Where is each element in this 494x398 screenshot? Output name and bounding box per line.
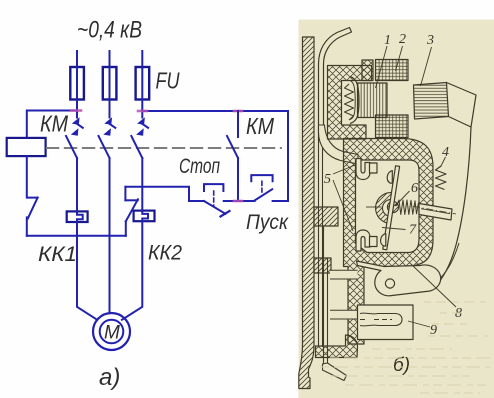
faint show-through text: [320, 302, 490, 393]
leader 6: [395, 191, 410, 206]
wire L2 fuse to contact: [109, 100, 111, 118]
leader 5: [333, 165, 355, 231]
wire L1 fuse to contact: [76, 100, 78, 118]
contact pad bottom: [381, 234, 386, 246]
armature carrier outline: [447, 83, 477, 128]
trip rod B: [324, 226, 328, 366]
spring inside yoke: [345, 84, 354, 120]
contact KM pole 1 arm: [66, 136, 77, 158]
pushrod: [419, 204, 452, 221]
leader 9: [408, 321, 430, 327]
node start junction: [234, 200, 242, 203]
leader 2: [396, 46, 403, 71]
svg-text:КК1: КК1: [38, 242, 77, 266]
svg-text:3: 3: [426, 33, 434, 48]
contact lug upper: [370, 163, 378, 173]
leader 1: [376, 46, 388, 88]
leader 7: [382, 228, 406, 230]
contact KM auxiliary: [237, 111, 239, 137]
clamp branch wire: [319, 125, 359, 164]
bent strip top hook: [319, 28, 352, 141]
button Start (NO) Пуск: [255, 189, 273, 200]
wire phase L1 top drop: [76, 51, 78, 68]
contact KM pole 3 arm: [131, 136, 142, 158]
svg-text:4: 4: [442, 145, 449, 160]
armature laminated (3): [414, 83, 449, 120]
winding section lower (2): [376, 115, 409, 138]
contact KM pole 3 arrow symbol: [136, 117, 145, 136]
fuse FU pole 2: [103, 67, 117, 100]
wire KK2 to Stop button: [125, 187, 204, 201]
svg-text:КК2: КК2: [148, 241, 182, 265]
node L1 junction: [71, 109, 81, 112]
svg-text:КМ: КМ: [246, 113, 275, 139]
wire phase L3 top drop: [141, 51, 143, 68]
shelf 2: [314, 207, 338, 226]
pole shoe step: [362, 60, 373, 81]
contact clamp upper (5): [356, 159, 370, 180]
magnet yoke (crosshatched C-core): [328, 66, 372, 140]
svg-text:7: 7: [409, 223, 417, 238]
contact clamp lower (5): [356, 230, 370, 251]
wire coil KM to L1: [27, 111, 77, 138]
node L3 junction: [138, 110, 147, 113]
wall left hatched strip: [299, 37, 314, 389]
numerals: [324, 32, 462, 338]
fuse FU pole 3: [136, 67, 150, 100]
svg-text:Стоп: Стоп: [179, 154, 220, 178]
outer shell outline: [431, 127, 471, 291]
contact lug lower: [370, 237, 378, 247]
curved clamp leaf: [350, 77, 359, 124]
contact spring (6): [397, 200, 420, 215]
core leg laminated (1): [358, 83, 388, 118]
slot rod upper: [330, 270, 358, 279]
heater KK1: [67, 211, 88, 222]
svg-text:Пуск: Пуск: [246, 210, 289, 234]
button Stop (NC): [204, 201, 226, 214]
leader 4: [441, 157, 446, 167]
winding section upper (2): [376, 60, 409, 81]
node KM-aux junction top: [234, 110, 242, 113]
svg-text:КМ: КМ: [40, 111, 69, 137]
shelf 3: [314, 258, 331, 273]
wire L1 heater to motor: [77, 222, 97, 319]
trip crescent: [376, 193, 395, 224]
wire phase L2 top drop: [109, 51, 111, 68]
release lever with pivot (8): [357, 261, 441, 296]
leader 3: [421, 47, 432, 86]
trip rod A: [319, 140, 323, 347]
wire L3 to control circuit: [142, 111, 288, 201]
contact KK2 (NC in control): [125, 221, 127, 235]
coil KM: [7, 138, 46, 156]
return spring (4): [436, 166, 447, 190]
moving contact bridge: [383, 166, 400, 250]
hub: [387, 201, 398, 212]
fuse FU pole 1: [70, 67, 84, 100]
leader 8: [411, 264, 456, 307]
svg-text:М: М: [104, 323, 120, 344]
svg-text:~0,4 кВ: ~0,4 кВ: [77, 17, 142, 44]
case molding (crosshatched shell): [344, 139, 434, 345]
heater KK2: [134, 211, 155, 222]
contact KM pole 1 arrow symbol: [71, 117, 80, 136]
svg-text:5: 5: [324, 172, 331, 187]
paper background: [299, 20, 494, 398]
svg-text:FU: FU: [156, 68, 180, 94]
motor M: [93, 313, 130, 350]
mechanical link dashed line: [47, 147, 281, 149]
contact KK1 (NC in control): [27, 156, 38, 198]
rod B foot: [323, 363, 347, 381]
bimetal box (9): [358, 305, 414, 340]
contact KM pole 2 arrow symbol: [103, 117, 112, 136]
contact KM pole 2 arm: [99, 136, 110, 158]
wire L2 contact to motor: [109, 158, 111, 313]
wire L3 heater to motor: [122, 221, 142, 320]
svg-text:а): а): [99, 364, 120, 391]
svg-text:6: 6: [411, 181, 418, 196]
wire control bottom run: [27, 235, 126, 237]
slot rod lower: [330, 310, 359, 319]
wire L3 contact to heater: [141, 158, 143, 211]
wire L1 contact to heater: [76, 158, 78, 211]
case foot: [316, 335, 358, 358]
wire L3 fuse to contact: [141, 100, 143, 118]
svg-text:1: 1: [384, 33, 391, 48]
contact pad top: [387, 171, 392, 184]
svg-text:2: 2: [399, 32, 406, 47]
